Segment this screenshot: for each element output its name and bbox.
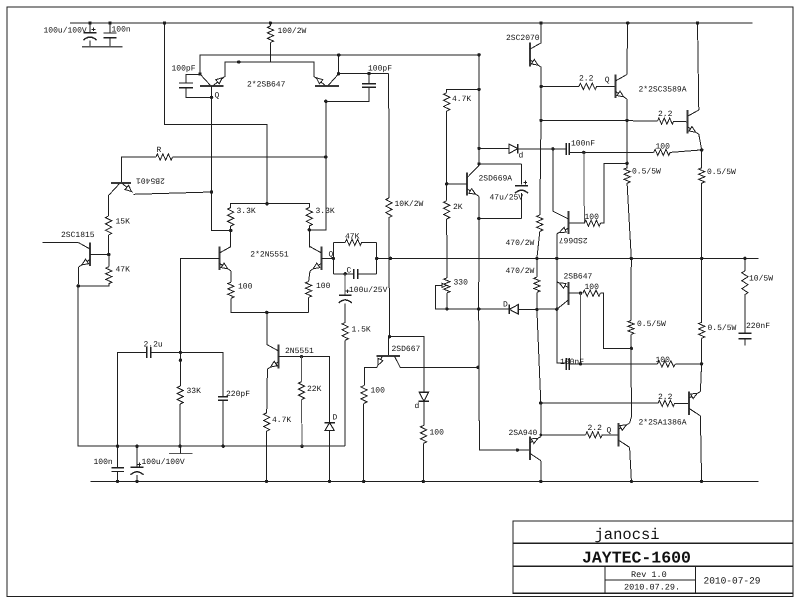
wire 100 VAS emitter bottom (363, 403, 365, 481)
wire Q12 emitter lead (556, 234, 558, 259)
wire Q11 collector (698, 23, 699, 110)
wire Q5 emitter lead (230, 271, 232, 282)
wire lower driver loop (600, 293, 631, 348)
svg-text:0.5/5W: 0.5/5W (707, 168, 736, 177)
wire d2 to 100 (423, 401, 425, 425)
wire 10/5W bottom lead (744, 295, 746, 334)
svg-text:100: 100 (238, 283, 253, 292)
wire 100nF lower right (569, 363, 657, 365)
transistor Q16 2*2SA1386A second (688, 391, 690, 415)
svg-text:2*2SB647: 2*2SB647 (247, 81, 286, 90)
transistor Q17 emitter arrow (378, 358, 383, 365)
wire driver link (541, 119, 627, 121)
svg-text:33K: 33K (187, 387, 202, 396)
svg-text:D: D (503, 301, 508, 310)
capacitor 100u/25V (electrolytic) (339, 294, 352, 296)
svg-text:100nF: 100nF (571, 140, 595, 149)
resistor 22K (298, 382, 304, 400)
transistor Q11 2*2SC3589A second (687, 110, 689, 134)
wire 3.3K top link (231, 204, 310, 208)
wire 47K bottom (78, 284, 109, 286)
wire 3.3K left bottom (230, 226, 232, 247)
wire Q7 emitter (266, 369, 269, 413)
capacitor 100u/100V bottom (electrolytic) (131, 466, 144, 468)
svg-text:Q: Q (605, 76, 610, 85)
wire 33K bottom lead (179, 404, 181, 446)
diode D (325, 423, 334, 431)
capacitor 100pF right top lead (368, 74, 370, 84)
svg-text:22K: 22K (307, 385, 322, 394)
svg-text:100: 100 (371, 387, 386, 396)
transistor Q17 2SD667 VAS bar (376, 355, 400, 357)
wire VAS box top (390, 337, 424, 392)
junction on V+ rail (696, 21, 699, 24)
title block row line 1 (513, 542, 793, 544)
svg-text:100n: 100n (112, 26, 131, 35)
junction on rail B (422, 480, 425, 483)
wire 100 upper to emitter node (670, 150, 702, 153)
transistor Q1 emitter diagonal (213, 76, 225, 85)
transistor Q14 2SA940 (529, 436, 531, 460)
junction on V+ rail (108, 21, 111, 24)
resistor 100 right emitter (306, 282, 312, 298)
wire 2SD669A box right upper (521, 164, 523, 185)
wire 100u/100V bottom lead2 (136, 475, 138, 481)
wire Q5 emitter resistor bottom (231, 298, 309, 312)
junction on output bus (743, 257, 746, 260)
resistor 100 left emitter (228, 282, 234, 298)
svg-text:100pF: 100pF (172, 65, 196, 74)
wire upper bias vertical (583, 152, 586, 223)
wire lower bias vertical (580, 293, 582, 364)
transistor Q3 emitter diagonal (122, 184, 132, 193)
wire bias feed corner (447, 89, 479, 92)
wire feedback box bottom-left (333, 273, 353, 275)
junction 2.2 lower-2 tap (540, 434, 543, 437)
resistor 100 below d2 (421, 425, 427, 443)
transistor Q17 emitter diagonal (377, 356, 382, 367)
wire 2.2 upper-2 right (674, 120, 688, 123)
junction tail node (265, 311, 268, 314)
junction upper emitter node (700, 148, 703, 151)
junction on rail B (700, 480, 703, 483)
wire 100nF upper right (569, 151, 653, 153)
resistor 10K/2W (386, 198, 392, 218)
wire 470/2W lower bottom (536, 292, 538, 309)
junction D net column (477, 307, 480, 310)
wire Q4 emitter column (77, 267, 80, 286)
wire bias column lower (478, 219, 480, 309)
junction Q4 emitter node (77, 284, 80, 287)
junction Q9 emitter tap (540, 85, 543, 88)
resistor 2.2 lower-2 (586, 432, 603, 438)
svg-text:10/5W: 10/5W (749, 275, 773, 284)
transistor Q6 2*2N5551 right (320, 246, 322, 270)
svg-text:JAYTEC-1600: JAYTEC-1600 (582, 549, 691, 568)
svg-text:Rev 1.0: Rev 1.0 (631, 570, 667, 580)
svg-text:2*2SC3589A: 2*2SC3589A (639, 85, 687, 94)
svg-text:100: 100 (430, 428, 445, 437)
svg-text:2B5401: 2B5401 (136, 176, 165, 185)
resistor 47K divider lead (108, 255, 110, 267)
wire Q6 base to feedback box (321, 257, 333, 259)
wire D diode anode (479, 308, 510, 310)
wire Q1 base column (212, 97, 231, 230)
junction divider node (107, 253, 110, 256)
transistor Q13 collector diagonal (557, 300, 569, 309)
wire 0.5/5W upper-left bottom (627, 183, 631, 258)
svg-text:47u/25V: 47u/25V (490, 194, 524, 203)
resistor 4.7K bias (444, 93, 450, 111)
junction 100nF upper right (582, 151, 585, 154)
wire 15K to node (108, 235, 110, 255)
transistor Q2 emitter arrow (316, 78, 323, 84)
svg-text:100: 100 (585, 213, 600, 222)
transistor Q17 2SD667 VAS base lead (388, 337, 390, 356)
wire 22K bottom lead (301, 400, 304, 447)
wire Q10 collector (626, 23, 629, 75)
junction on rail B (362, 480, 365, 483)
wire collector bias bus (200, 55, 479, 74)
capacitor 100u/100V top-left lead (89, 23, 91, 33)
svg-text:2010.07.29.: 2010.07.29. (624, 583, 680, 593)
svg-text:0.5/5W: 0.5/5W (708, 324, 737, 333)
resistor 3.3K left (228, 208, 234, 227)
junction on output bus (700, 257, 703, 260)
diode d2 (419, 392, 428, 401)
resistor R (156, 154, 173, 160)
wire feedback box top-right (362, 241, 377, 243)
resistor 0.5/5W lower-right (699, 322, 705, 338)
wire driver emitter column (557, 258, 566, 363)
resistor 4.7K emitter (264, 413, 270, 431)
capacitor 100u/100V top-left (electrolytic) (84, 32, 97, 34)
resistor 100 lower driver (583, 290, 601, 296)
transistor Q1 2*2SB647 left bar (200, 85, 224, 87)
title block column line 1 (604, 566, 606, 593)
resistor 2K (444, 201, 450, 219)
wire 33K top lead (179, 352, 181, 386)
transistor Q3 emitter arrow (125, 185, 132, 191)
wire Q16 emitter riser (700, 364, 701, 392)
resistor 100 upper driver (584, 220, 600, 226)
junction C to 100u/25V (344, 272, 347, 275)
wire Q6 emitter resistor bottom (308, 297, 310, 312)
capacitor 2.2u (146, 347, 148, 358)
wire feedback box top-left (333, 241, 345, 243)
svg-text:100n: 100n (94, 458, 113, 467)
junction bias bus (337, 53, 340, 56)
wire 2.2 lower-1 right (675, 402, 690, 404)
svg-text:47K: 47K (116, 266, 131, 275)
capacitor 100n bottom lead (117, 446, 119, 468)
transistor Q1 collector diagonal (200, 74, 210, 85)
capacitor 100nF lower (565, 358, 567, 370)
wire 1.5K bottom (344, 340, 346, 446)
wire R left segment (122, 157, 157, 183)
transistor Q2 collector riser (338, 55, 340, 74)
junction on rail B (135, 480, 138, 483)
transistor Q1 base lead (211, 86, 213, 98)
transistor Q8 collector diagonal (467, 166, 479, 178)
transistor Q13 emitter arrow (559, 283, 566, 288)
junction 2SA940 emitter node (539, 401, 542, 404)
svg-text:100u/100V: 100u/100V (142, 458, 185, 467)
ground bar stub (180, 446, 182, 453)
resistor 2.2 lower-1 (658, 400, 675, 406)
wire feedback box bottom-right (358, 273, 377, 275)
capacitor 100n top-left lead (109, 23, 111, 33)
transistor Q3 2B5401 bar (111, 182, 131, 184)
wire 4.7K bottom (266, 431, 268, 481)
transistor Q10 2*2SC3589A first (615, 74, 617, 98)
wire 330 bottom lead (446, 293, 448, 309)
capacitor 100n bottom lead (109, 38, 111, 47)
junction 2.2u node (179, 351, 182, 354)
svg-text:Q: Q (607, 426, 612, 435)
svg-text:janocsi: janocsi (595, 526, 660, 544)
wire 2.2u left (118, 352, 147, 446)
wire V+ top rail (70, 22, 753, 24)
junction Q1 base to feedback (210, 190, 213, 193)
transistor Q2 2*2SB647 right bar (315, 85, 339, 87)
wire 470/2W lower top (536, 258, 538, 277)
wire ground rail A (78, 286, 345, 446)
junction on rail A (300, 445, 303, 448)
transistor Q9 2SC2070 (529, 43, 531, 67)
transistor Q12 2SD667 upper bar (567, 211, 569, 234)
resistor 47K feedback (345, 239, 362, 245)
wire 2K to 330 (446, 219, 448, 278)
svg-text:2SD669A: 2SD669A (479, 175, 513, 184)
svg-text:2.2: 2.2 (658, 110, 673, 119)
capacitor 100n top-left (104, 32, 117, 34)
junction feedback right (375, 257, 378, 260)
wire Q8 emitter segment (478, 196, 480, 218)
svg-text:Q: Q (215, 92, 220, 101)
wire 2.2 upper-1 right (597, 85, 616, 87)
wire Q15 emitter riser (630, 417, 632, 423)
junction on output bus (555, 257, 558, 260)
junction lower 0.5 node (630, 347, 633, 350)
svg-text:2SD667: 2SD667 (392, 345, 421, 354)
transistor Q8 2SD669A bar (466, 172, 468, 195)
title block column line 2 (695, 566, 697, 593)
wire 2SD669A box bottom (479, 218, 522, 220)
resistor 100/2W (267, 26, 273, 43)
wire input pair emitters (225, 62, 314, 76)
svg-text:100: 100 (585, 283, 600, 292)
junction VAS collector node (388, 335, 391, 338)
title block middle split (605, 579, 696, 581)
junction 2SD669A base node (445, 182, 448, 185)
junction 3.3K top feed (265, 202, 268, 205)
wire 0.5/5W lower-left bottom (630, 334, 632, 417)
capacitor 100pF right (362, 83, 376, 85)
resistor 2.2 upper-1 (579, 83, 597, 89)
wire 2.2u right (151, 352, 223, 396)
capacitor 100u/25V lead (344, 274, 346, 295)
transistor Q15 2*2SA1386A first (617, 423, 619, 447)
resistor 2.2 upper-2 (658, 118, 674, 124)
ground bar below rail A (169, 453, 192, 455)
wire Q2 base column (309, 101, 326, 230)
wire Q3 collector lead (108, 195, 110, 216)
wire VAS column mid (388, 218, 391, 337)
junction emitters wire (237, 60, 240, 63)
junction on rail B (328, 480, 331, 483)
wire Q14 emitter riser (540, 403, 542, 437)
wire R right segment (173, 156, 326, 158)
transistor Q3 collector diagonal (109, 184, 119, 195)
svg-text:2*2SA1386A: 2*2SA1386A (639, 419, 687, 428)
svg-text:2SC1815: 2SC1815 (61, 231, 95, 240)
svg-text:3.3K: 3.3K (316, 207, 335, 216)
junction Q1 base node (210, 96, 213, 99)
capacitor 100n bottom lead2 (117, 472, 119, 482)
diode D lower (509, 305, 518, 314)
wire 0.5/5W lower-right bottom (701, 338, 703, 364)
junction lower emitter node (700, 362, 703, 365)
transistor Q12 collector diagonal (553, 211, 568, 219)
wire Q4 collector input stub (43, 242, 79, 244)
svg-text:2.2: 2.2 (588, 424, 603, 433)
junction on rail A (178, 445, 181, 448)
junction on rail A (135, 445, 138, 448)
svg-text:C: C (347, 266, 352, 275)
capacitor 100u/100V bottom lead (136, 446, 138, 467)
svg-text:2SC2070: 2SC2070 (506, 34, 540, 43)
capacitor 100nF upper (565, 143, 567, 155)
wire upper driver loop (601, 163, 628, 223)
svg-text:2.2: 2.2 (579, 74, 594, 83)
title block outer box (513, 521, 793, 593)
junction on output bus (389, 257, 392, 260)
wire 2.2 upper-2 left (627, 120, 657, 122)
junction Q7 base to 22K (300, 355, 303, 358)
svg-text:330: 330 (454, 279, 469, 288)
junction driver collector node (555, 308, 558, 311)
resistor 0.5/5W upper-left lead (626, 163, 628, 168)
junction Q2 base node (324, 100, 327, 103)
transistor Q2 emitter diagonal (314, 76, 326, 85)
svg-text:220nF: 220nF (746, 322, 770, 331)
resistor 47K divider (106, 267, 112, 284)
junction 2SD667 upper collector feed (551, 147, 554, 150)
svg-text:4.7K: 4.7K (272, 416, 291, 425)
capacitor C feedback (353, 269, 355, 279)
svg-text:2K: 2K (453, 203, 463, 212)
junction Q10 emitter tap (625, 119, 628, 122)
transistor Q12 emitter arrow (560, 227, 567, 232)
resistor 100 VAS emitter (361, 386, 367, 404)
transistor Q2 collector diagonal (328, 74, 338, 85)
resistor 3.3K right (306, 208, 312, 227)
wire diode d anode (479, 147, 509, 149)
junction bias feed (477, 88, 480, 91)
junction bias bus end (477, 53, 480, 56)
transistor Q12 emitter diagonal (557, 228, 568, 233)
svg-text:100u/100V: 100u/100V (44, 26, 87, 35)
wire 100 below d2 bottom (422, 443, 424, 481)
wire Q9 emitter column (540, 67, 542, 120)
wire left feed bus (165, 23, 268, 204)
wire feedback box left side (332, 242, 334, 273)
transistor Q8 base lead (447, 183, 467, 185)
transistor Q13 emitter diagonal (557, 282, 569, 288)
capacitor 100pF right bottom lead (326, 87, 369, 101)
svg-text:Q: Q (329, 250, 334, 259)
junction lower driver base (579, 292, 582, 295)
svg-text:100: 100 (656, 142, 671, 151)
wire 22K top lead (301, 357, 303, 382)
resistor 10/5W (742, 271, 748, 295)
svg-text:d: d (415, 402, 420, 411)
svg-text:2SB647: 2SB647 (564, 272, 593, 281)
junction on V+ rail (269, 21, 272, 24)
svg-text:47K: 47K (345, 233, 360, 242)
resistor 470/2W lower (534, 277, 540, 292)
svg-text:100: 100 (316, 282, 331, 291)
svg-text:2*2N5551: 2*2N5551 (250, 250, 289, 259)
junction 3.3K right bottom (308, 228, 311, 231)
svg-text:100/2W: 100/2W (278, 27, 307, 36)
junction Q1 collector (198, 72, 201, 75)
wire 2.2 lower-2 right (602, 434, 618, 436)
wire Q4 base (90, 254, 109, 256)
svg-text:2SD667: 2SD667 (559, 235, 588, 244)
resistor 100 lower base (658, 361, 676, 367)
capacitor 100pF left top lead (186, 74, 200, 83)
wire D diode net left (447, 308, 479, 310)
wire 2.2 lower-2 left (541, 434, 586, 436)
svg-text:470/2W: 470/2W (506, 239, 535, 248)
junction on rail A (116, 445, 119, 448)
transistor Q8 emitter arrow (469, 189, 476, 195)
capacitor 100pF left bottom lead (186, 88, 212, 98)
capacitor 47u/25V (electrolytic) (515, 185, 528, 187)
svg-text:2N5551: 2N5551 (285, 347, 314, 356)
resistor 0.5/5W lower-left (628, 321, 634, 335)
svg-text:4.7K: 4.7K (452, 95, 471, 104)
wire 100u/25V to 1.5K (344, 303, 346, 322)
junction 33K node (179, 359, 182, 362)
resistor 33K (177, 386, 183, 404)
wire Q2 collector to 100pF and VAS column (339, 73, 389, 75)
svg-text:0.5/5W: 0.5/5W (637, 320, 666, 329)
wire 2SD669A box right lower (521, 193, 523, 218)
wire upper driver collector column (552, 149, 554, 212)
wire 220pF bottom lead (222, 400, 224, 446)
transistor Q13 2SB647 lower bar (568, 282, 570, 305)
svg-text:2010-07-29: 2010-07-29 (704, 576, 761, 587)
wire Q7 base (279, 357, 330, 423)
resistor 1.5K (342, 322, 348, 340)
resistor 15K (106, 216, 112, 235)
svg-text:2SA940: 2SA940 (509, 429, 538, 438)
junction Q9 emitter corner (539, 119, 542, 122)
resistor 0.5/5W upper-right lead (701, 150, 703, 168)
capacitor 100pF left (179, 82, 193, 84)
junction on rail B (630, 480, 633, 483)
wire bias to 2SA940 emitter node (537, 309, 541, 403)
resistor 0.5/5W upper-right (699, 168, 705, 183)
resistor 330 trimmer (444, 278, 450, 293)
junction 330 bottom (445, 307, 448, 310)
ground bar under top-left caps (82, 46, 123, 48)
junction 470/2W lower bottom (535, 308, 538, 311)
transistor Q13 base lead (569, 292, 581, 294)
